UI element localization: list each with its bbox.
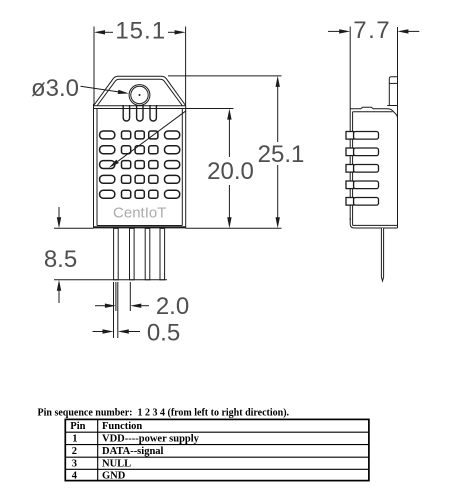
- svg-text:1: 1: [72, 434, 77, 445]
- svg-text:VDD----power supply: VDD----power supply: [102, 434, 200, 445]
- svg-text:Function: Function: [102, 421, 142, 432]
- svg-text:CentIoT: CentIoT: [113, 205, 166, 222]
- svg-text:25.1: 25.1: [258, 141, 305, 168]
- svg-text:15.1: 15.1: [115, 18, 166, 45]
- svg-text:2.0: 2.0: [156, 293, 189, 320]
- svg-text:0.5: 0.5: [147, 320, 180, 347]
- svg-text:Pin sequence number: 1 2 3 4: Pin sequence number: 1 2 3 4 (from left …: [38, 408, 290, 419]
- svg-text:DATA--signal: DATA--signal: [102, 446, 164, 457]
- svg-text:2: 2: [72, 446, 77, 457]
- svg-text:GND: GND: [102, 470, 126, 481]
- svg-text:4: 4: [72, 470, 78, 481]
- svg-text:7.7: 7.7: [353, 17, 391, 44]
- svg-text:NULL: NULL: [102, 458, 131, 469]
- svg-text:Pin: Pin: [70, 421, 85, 432]
- svg-text:20.0: 20.0: [207, 158, 254, 185]
- svg-text:ø3.0: ø3.0: [31, 75, 79, 102]
- svg-text:3: 3: [72, 458, 77, 469]
- svg-text:8.5: 8.5: [44, 246, 77, 273]
